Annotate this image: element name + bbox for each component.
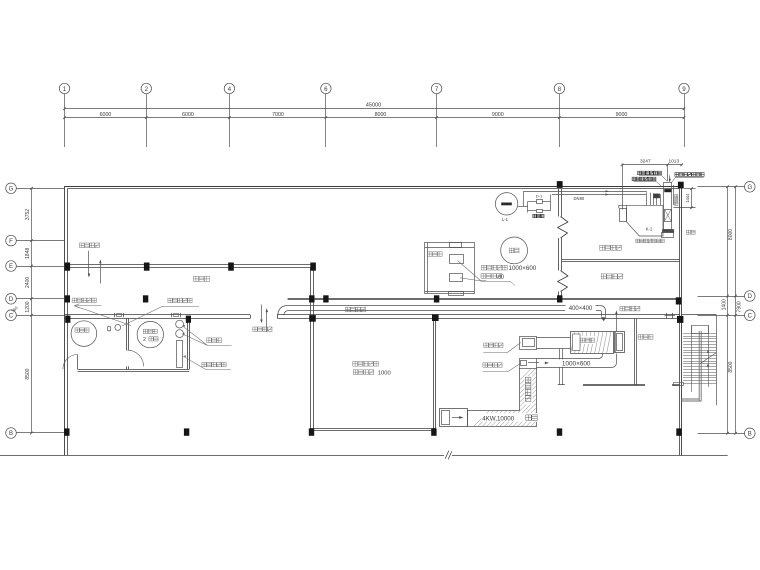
- svg-text:D-1: D-1: [536, 193, 543, 198]
- svg-text:2400: 2400: [25, 277, 31, 288]
- laundry partition vertical: [635, 318, 637, 384]
- tank room bottom wall: [78, 370, 190, 372]
- svg-text:3752: 3752: [25, 209, 31, 220]
- circulating pump symbol: [108, 325, 121, 331]
- purification air cabinet duct: [468, 368, 651, 427]
- regeneration air inlet arrow: [615, 310, 617, 331]
- label production platform line1: [353, 361, 358, 366]
- label drying outlet: [483, 343, 521, 353]
- svg-text:45000: 45000: [366, 103, 382, 109]
- wall D (corridor top): [288, 299, 680, 300]
- svg-text:1848: 1848: [25, 248, 31, 259]
- label maintenance passage: [80, 243, 85, 248]
- disinfector boxes D-1: [533, 193, 544, 217]
- connection line to dryer: [536, 337, 570, 339]
- svg-text:1: 1: [63, 86, 67, 93]
- svg-text:7900: 7900: [736, 301, 742, 312]
- label AC machine room: [600, 245, 605, 250]
- label compressor room: [601, 274, 606, 279]
- grid bubbles right (G D C B): [745, 182, 756, 439]
- svg-text:F: F: [9, 239, 13, 245]
- regeneration air drop duct: [558, 349, 565, 385]
- svg-text:E: E: [9, 264, 13, 270]
- svg-text:6: 6: [324, 86, 328, 93]
- dimension 1444: [674, 187, 696, 209]
- svg-text:7: 7: [435, 86, 439, 93]
- svg-text:6000: 6000: [182, 112, 194, 118]
- pipe DN80 run: [524, 190, 647, 201]
- left dimension chain: [10, 187, 33, 434]
- drying outlet box: [520, 337, 537, 350]
- svg-text:8500: 8500: [25, 368, 31, 379]
- right dimension chains: [721, 186, 742, 435]
- svg-text:8000: 8000: [375, 112, 387, 118]
- silencer stack: [662, 176, 678, 238]
- svg-text:2: 2: [145, 86, 149, 93]
- label washing room: [193, 276, 198, 281]
- wall C upper line: [64, 314, 679, 316]
- valve on wall C: [665, 313, 676, 319]
- svg-text:8500: 8500: [728, 361, 734, 372]
- label wall opening 1000x600: [482, 265, 537, 272]
- svg-text:B: B: [9, 431, 13, 437]
- label 4KW 10000: [482, 413, 538, 423]
- columns row B: [64, 428, 682, 435]
- svg-text:D: D: [748, 294, 753, 300]
- duct 400x400: [278, 306, 607, 322]
- label pure water processor: [183, 355, 231, 369]
- fan wiring: [518, 191, 551, 212]
- svg-text:7000: 7000: [272, 112, 284, 118]
- svg-text:8000: 8000: [728, 229, 734, 240]
- svg-text:9000: 9000: [492, 112, 504, 118]
- label regeneration air inlet: [620, 306, 625, 311]
- svg-text:L-1: L-1: [502, 217, 509, 222]
- wall between AC room and compressor room: [562, 260, 680, 262]
- columns row E: [65, 263, 316, 271]
- svg-text:C: C: [748, 313, 753, 319]
- hot water tank: [71, 321, 97, 347]
- laundry partition horizontal: [583, 385, 680, 386]
- label to exhaust duct: [671, 173, 704, 183]
- fan L-1 circle: [495, 193, 517, 222]
- svg-text:760: 760: [10, 305, 19, 314]
- svg-text:1200: 1200: [25, 301, 31, 312]
- production room left wall (up to wall E): [311, 268, 314, 429]
- label duct 1000x600: [558, 359, 595, 367]
- water tower circle: [501, 237, 528, 264]
- svg-text:4KW,10000: 4KW,10000: [482, 416, 515, 423]
- svg-text:G: G: [747, 185, 752, 191]
- label laundry room: [638, 335, 643, 340]
- svg-text:2: 2: [143, 337, 146, 343]
- passage arrows (center): [260, 305, 268, 333]
- grid bubbles top (1 2 4 6 7 8 9): [59, 83, 689, 93]
- wall grid-8 with break symbols: [558, 189, 569, 298]
- svg-text:1000×600: 1000×600: [562, 361, 591, 368]
- label dryer room: [428, 252, 433, 256]
- pure water processor: [177, 341, 183, 368]
- label louvre 2: [632, 177, 662, 187]
- svg-text:6000: 6000: [100, 112, 112, 118]
- columns row D: [65, 295, 682, 304]
- segment dimension line top: [63, 112, 685, 119]
- dimension 3247 / 1013: [621, 159, 683, 210]
- label dryer machine: [581, 338, 585, 342]
- left wall: [65, 186, 68, 455]
- svg-text:400×400: 400×400: [569, 306, 593, 312]
- dryer machine block: [571, 331, 625, 353]
- mechanical mixers: [176, 320, 184, 337]
- louvre comb above AHU: [647, 185, 674, 205]
- ground line with break: [0, 451, 728, 460]
- svg-text:1000×600: 1000×600: [509, 265, 537, 272]
- label bottom edge 80: [481, 274, 515, 286]
- svg-text:1013: 1013: [668, 159, 679, 165]
- grid leaders right: [698, 187, 745, 434]
- svg-text:D: D: [9, 297, 14, 303]
- svg-text:3247: 3247: [640, 159, 651, 165]
- label drying return: [483, 363, 520, 372]
- label louvre 1: [638, 171, 668, 181]
- pipe union on wall C (left): [115, 313, 124, 317]
- pipe union on wall C (right): [172, 313, 181, 317]
- right wall: [680, 186, 682, 455]
- air handling unit K-1: [619, 205, 663, 236]
- columns row C: [65, 314, 683, 323]
- svg-text:K-1: K-1: [646, 226, 653, 231]
- grid leaders left: [16, 189, 64, 433]
- tank room right wall: [188, 318, 190, 369]
- pure water tank: [137, 321, 163, 347]
- tank room entry door: [63, 355, 78, 370]
- label technical corridor: [345, 307, 367, 313]
- svg-text:4: 4: [228, 86, 232, 93]
- svg-text:1400: 1400: [721, 299, 727, 310]
- wall C lower line: [64, 315, 679, 319]
- svg-text:1444: 1444: [685, 193, 690, 203]
- overall dimension line 45000: [63, 103, 685, 111]
- label AHU name: [636, 239, 640, 243]
- label duct 400x400: [566, 304, 596, 311]
- svg-text:80: 80: [498, 274, 504, 280]
- top wall: [64, 187, 682, 189]
- production room right wall: [434, 318, 436, 428]
- svg-text:B: B: [748, 432, 752, 438]
- label circulating hot water pump: [72, 298, 131, 325]
- columns row G: [557, 181, 684, 188]
- maintenance passage arrows (left): [88, 251, 102, 284]
- tank room inner wall with door: [127, 318, 144, 369]
- fresh air unit box: [440, 409, 468, 427]
- production room bottom wall: [311, 429, 436, 431]
- svg-text:9000: 9000: [616, 112, 628, 118]
- svg-text:1000: 1000: [378, 371, 391, 377]
- svg-text:9: 9: [682, 86, 686, 93]
- svg-text:8: 8: [558, 86, 562, 93]
- grid bubbles left (G F E D C B): [6, 183, 17, 438]
- svg-text:DN80: DN80: [574, 196, 585, 201]
- wall E (washroom): [64, 265, 313, 268]
- duct 1000x600: [537, 354, 617, 368]
- label production platform line2: [353, 370, 391, 377]
- label passage (center): [253, 327, 257, 331]
- label exhaust vent: [687, 230, 691, 234]
- label circulating hot water tank: [122, 298, 199, 326]
- svg-text:G: G: [9, 187, 14, 193]
- staircase: [674, 315, 717, 406]
- dryer room box: [425, 243, 475, 296]
- drying return box: [520, 359, 550, 369]
- label purification cabinet (vertical): [524, 376, 532, 404]
- grid verticals top: [65, 94, 685, 147]
- dryer room leaders: [458, 261, 487, 282]
- label mechanical mixer: [182, 325, 232, 346]
